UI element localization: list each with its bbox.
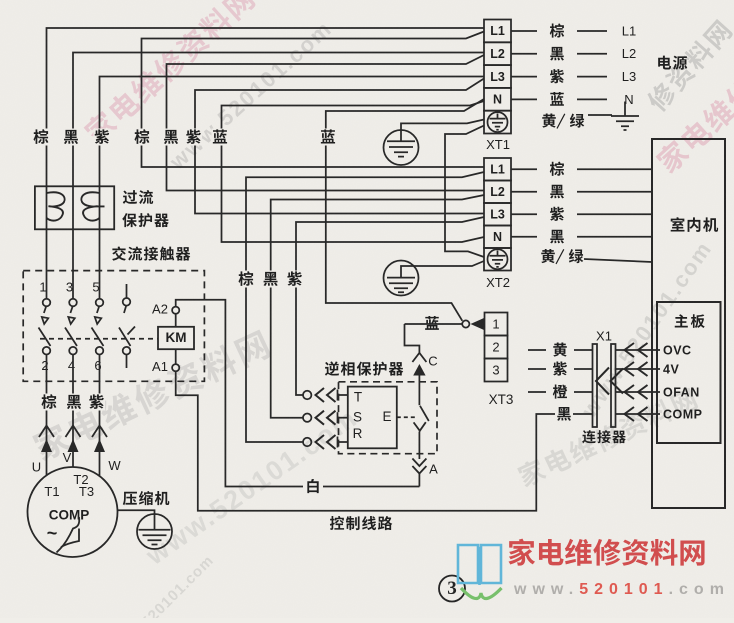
color label 棕 (XT1 L1) <box>550 23 564 37</box>
color label 紫 (XT1 L3) <box>550 69 564 83</box>
wire X1 to main board 4V <box>616 368 661 370</box>
label 交流接触器 AC contactor <box>112 246 190 260</box>
C contact chevron <box>412 353 426 362</box>
wire 棕 to indoor unit <box>577 168 652 170</box>
watermark gray www bottom-left <box>107 552 217 623</box>
label 室内机 indoor unit <box>671 217 718 232</box>
logo book icon <box>458 545 501 585</box>
page number 3 circled <box>439 576 465 602</box>
protector input node S <box>303 414 311 422</box>
color label 紫 (XT2) <box>550 207 564 221</box>
wire 紫 to indoor unit <box>577 213 652 215</box>
color label 黑 (XT2) <box>550 185 564 199</box>
color label 黑 top row x=71 <box>63 129 80 146</box>
wire X1 to main board OFAN <box>616 391 661 393</box>
compressor earth symbol <box>137 514 172 549</box>
wire dash to supply ground <box>588 114 612 116</box>
wire dash to N supply <box>577 98 607 100</box>
XT2 PE terminal circle <box>488 249 508 269</box>
color label 蓝 (XT1 N) <box>550 92 564 106</box>
earth symbol circle near XT1 <box>384 130 419 165</box>
wire W through overcurrent protector <box>99 186 101 298</box>
compressor squiggle glyph <box>57 517 80 553</box>
protector input tick T <box>337 390 339 401</box>
wire tick to TSR box T <box>338 394 348 396</box>
wire KM A1 control wire <box>176 371 593 511</box>
protector input chevrons T <box>316 388 336 402</box>
color label 黑 (XT2) <box>550 230 564 244</box>
color label 黑 top row x=171 <box>163 129 180 146</box>
color label 黑 middle row <box>262 271 279 288</box>
connector X1 right bar <box>611 344 616 427</box>
connector chevrons OVC <box>625 343 648 357</box>
label 白 white <box>303 479 323 496</box>
terminal block XT1 <box>484 20 511 134</box>
contactor pole 3-4 <box>65 299 77 355</box>
indoor unit box <box>652 139 725 508</box>
protector input tick S <box>337 412 339 423</box>
KM A2 terminal <box>172 307 179 314</box>
wire X1 to main board OVC <box>616 349 661 351</box>
wire 黄 to X1 <box>574 349 593 351</box>
contactor aux contact <box>119 284 135 368</box>
label yellow/green XT2 <box>541 249 583 264</box>
wire blue XT1-N to XT2-N <box>222 101 485 242</box>
watermark pink top-left <box>81 0 257 147</box>
wire stub XT1 L2 to color label <box>511 53 537 55</box>
overcurrent protector box <box>35 186 114 229</box>
heater element 1 <box>47 192 65 220</box>
wire yellow/green to indoor unit <box>584 259 652 262</box>
wire stub left of 紫 <box>528 368 546 370</box>
contactor pole 5-6 <box>92 299 104 355</box>
color label 棕 top row x=41 <box>33 129 50 146</box>
label 连接器 connector <box>582 430 626 443</box>
watermark gray right-lower <box>516 386 699 489</box>
earth symbol circle near XT2 <box>384 261 419 296</box>
wire X1 to main board COMP <box>616 413 661 415</box>
color label 棕 (XT2) <box>550 162 564 176</box>
wire earth-circle1 to XT1-PE <box>401 120 484 142</box>
wire A contact to white wire <box>418 474 420 487</box>
wire stub XT1 L3 to color label <box>511 76 537 78</box>
contactor linkage dashed <box>40 338 158 340</box>
wire earth-circle2 to XT2-PE <box>401 261 484 278</box>
label yellow/green XT1 <box>542 114 584 129</box>
plug arrow on wire x=46.5 <box>41 439 52 452</box>
switch fixed contact <box>414 422 426 431</box>
wire V phase to compressor <box>72 355 74 468</box>
color label 紫 top row x=193.5 <box>185 129 202 146</box>
protector input node R <box>303 438 311 446</box>
wire brown XT2-L1 to protector R <box>246 172 484 442</box>
wire brown supply to XT1-L1 <box>47 28 485 186</box>
watermark gray www center-bottom <box>140 402 363 571</box>
color label 棕 top row x=142 <box>134 129 151 146</box>
label 逆相保护器 phase protector <box>325 361 403 375</box>
E link dashed <box>397 416 417 418</box>
wire purple XT2-L3 to protector T <box>296 217 484 395</box>
C contact arrow <box>413 364 425 376</box>
wire V through overcurrent protector <box>72 186 74 298</box>
main board box <box>657 302 721 443</box>
logo text 家电维修资料网 <box>508 539 704 566</box>
color label 黄 (X1) <box>553 343 567 357</box>
wire blue branch to C contact <box>405 324 420 353</box>
wire 黑 to indoor unit <box>577 191 652 193</box>
wire U phase to compressor <box>46 355 48 476</box>
wire brown XT1-L1 to XT2-L1 <box>142 32 485 168</box>
compressor circle <box>28 467 118 557</box>
KM coil box <box>158 327 194 349</box>
wire tick to TSR box R <box>338 441 348 443</box>
plug arrow on wire x=73.0 <box>68 439 79 452</box>
color label 黑 (XT1 L2) <box>550 47 564 61</box>
wire 紫 to X1 <box>574 368 593 370</box>
phase protector dashed box <box>339 382 438 454</box>
wire W phase to compressor <box>99 355 101 477</box>
wire dash to L2 supply <box>577 53 607 55</box>
color label 蓝 top row x=220 <box>212 129 229 146</box>
wire compressor to earth <box>117 510 154 530</box>
wire stub left of 橙 <box>528 391 546 393</box>
label 电源 power supply <box>658 56 687 70</box>
label 蓝 blue at XT3 <box>423 316 441 333</box>
connector X1 left bar <box>593 344 598 427</box>
wire dash to L1 supply <box>577 30 607 32</box>
label 黑 on control wire <box>555 406 573 422</box>
protector input tick R <box>337 437 339 448</box>
watermark gray top-right <box>644 18 734 114</box>
connector chevrons OFAN <box>625 385 648 399</box>
color label 棕 above compressor <box>41 394 58 411</box>
color label 棕 middle row <box>238 271 255 288</box>
color label 橙 (X1) <box>553 385 568 399</box>
KM stubs <box>175 314 177 364</box>
wire blade to A contact <box>418 432 420 460</box>
protector input node T <box>303 391 311 399</box>
color label 紫 (X1) <box>553 362 567 376</box>
wire stub XT1 N to color label <box>511 98 537 100</box>
color label 紫 above compressor <box>88 394 105 411</box>
plug arrow on wire x=99.5 <box>94 439 105 452</box>
label 压缩机 compressor <box>123 491 170 505</box>
wire U through overcurrent protector <box>46 186 48 298</box>
XT1 PE terminal circle <box>488 112 508 132</box>
wire blue XT1-N to XT3-1 <box>326 99 484 321</box>
contactor pole 1-2 <box>39 299 51 355</box>
color label 黑 above compressor <box>66 394 83 411</box>
switch blade <box>420 406 429 421</box>
A contact chevrons <box>412 459 426 474</box>
connector chevrons COMP <box>625 407 648 421</box>
color label 紫 top row x=102 <box>94 129 111 146</box>
wire 橙 to X1 <box>574 391 593 393</box>
connector chevrons 4V <box>625 362 648 376</box>
label 过流 <box>123 190 153 204</box>
wire KM A2 white wire <box>176 300 420 487</box>
wire stub XT2 row to color label 黑 <box>511 191 537 193</box>
color label 紫 middle row <box>286 271 303 288</box>
X1 keying chevrons <box>596 368 623 395</box>
wire XT1-PE to XT2-PE <box>445 126 484 258</box>
wire dash to L3 supply <box>577 76 607 78</box>
wire stub XT2 row to color label 黑 <box>511 236 537 238</box>
watermark pink top-right corner <box>653 14 734 176</box>
node circle blue at XT3 <box>462 320 469 327</box>
wire stub XT1 L1 to color label <box>511 30 537 32</box>
label 控制线路 control circuit <box>330 516 392 530</box>
label 主板 main board <box>675 314 705 328</box>
protector input chevrons S <box>316 411 336 425</box>
plug chevron on wire x=73.0 <box>66 426 81 438</box>
wire black XT2-L2 to protector S <box>271 195 484 418</box>
protector input chevrons R <box>316 435 336 449</box>
watermark gray big left-middle <box>30 327 272 463</box>
wire black XT1-L2 to XT2-L2 <box>167 55 485 191</box>
wire stub XT2 row to color label 棕 <box>511 168 537 170</box>
label 保护器 <box>122 213 169 227</box>
plug chevron on wire x=46.5 <box>39 426 54 438</box>
wire purple supply to XT1-L3 <box>100 77 485 187</box>
wire 黑 to indoor unit <box>577 236 652 238</box>
plug chevron on wire x=99.5 <box>92 426 107 438</box>
wire black supply to XT1-L2 <box>73 53 484 187</box>
phase protector TSR box <box>348 387 397 449</box>
connector arrow into XT3-1 <box>471 318 485 330</box>
KM A1 terminal <box>172 364 179 371</box>
color label 蓝 top row x=328 <box>320 129 337 146</box>
watermark gray www top-left <box>164 15 337 174</box>
terminal block XT3 <box>485 313 508 382</box>
AC contactor dashed box <box>23 271 204 382</box>
wire C to switch blade <box>418 376 420 406</box>
wire stub left of 黄 <box>528 349 546 351</box>
terminal block XT2 <box>484 158 511 271</box>
wire stub XT2 row to color label 紫 <box>511 213 537 215</box>
heater element 2 <box>81 192 104 220</box>
watermark gray www right-middle <box>576 236 717 423</box>
wire blue label to node <box>405 323 463 325</box>
supply earth ground symbol <box>611 102 639 131</box>
wire purple XT1-L3 to XT2-L3 <box>195 79 484 214</box>
wire tick to TSR box S <box>338 417 348 419</box>
